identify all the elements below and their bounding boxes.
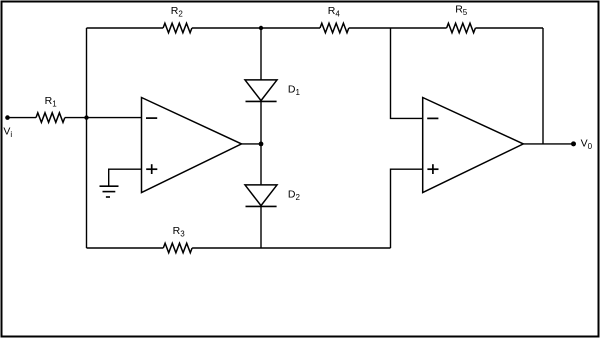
wire bottom left of R3 xyxy=(87,247,164,249)
U1 minus sign xyxy=(146,117,157,119)
wire top left of R2 xyxy=(87,27,164,29)
wire node A branch down to U2 inverting input xyxy=(391,28,423,118)
wire bottom bus up to U2 non-inverting input xyxy=(391,169,423,248)
node junction input/feedback xyxy=(84,115,88,119)
node U1 output junction xyxy=(259,142,264,147)
wire left vertical feedback bus xyxy=(86,28,88,248)
resistor R4 xyxy=(320,23,349,33)
wire U1 output xyxy=(242,143,262,145)
resistor R5 xyxy=(447,23,476,33)
op-amp U1 xyxy=(142,98,242,193)
wire input left of R1 xyxy=(8,117,37,119)
wire R5 to top right corner xyxy=(475,27,543,29)
node V0 output terminal xyxy=(571,141,576,146)
wire node A down to D1 anode xyxy=(260,28,262,80)
resistor R1 xyxy=(36,113,65,123)
U2 minus sign xyxy=(427,117,438,119)
wire R1 to op-amp U1 inverting input xyxy=(65,117,142,119)
wire U2 output to terminal xyxy=(523,143,573,145)
wire U1 non-inverting input to ground xyxy=(109,169,142,186)
wire D2 cathode to bottom bus xyxy=(260,206,262,248)
U1 plus sign xyxy=(146,164,157,174)
U2 plus sign xyxy=(427,164,438,174)
wire output node down to D2 anode xyxy=(260,144,262,185)
diode D1 xyxy=(245,80,277,102)
wire R2 to node A xyxy=(192,27,320,29)
resistor R2 xyxy=(163,23,192,33)
node A junction top (R2/R4/diode branch) xyxy=(259,26,263,30)
wire right feedback vertical xyxy=(542,28,544,144)
wire R4 to R5 xyxy=(349,27,447,29)
resistor R3 xyxy=(163,243,192,253)
ground xyxy=(100,186,119,197)
diode D2 xyxy=(245,185,277,207)
node Vi input terminal xyxy=(5,115,10,120)
wire D1 cathode to output node xyxy=(260,101,262,143)
wire R3 to bottom corner xyxy=(192,247,390,249)
op-amp U2 xyxy=(423,98,524,193)
